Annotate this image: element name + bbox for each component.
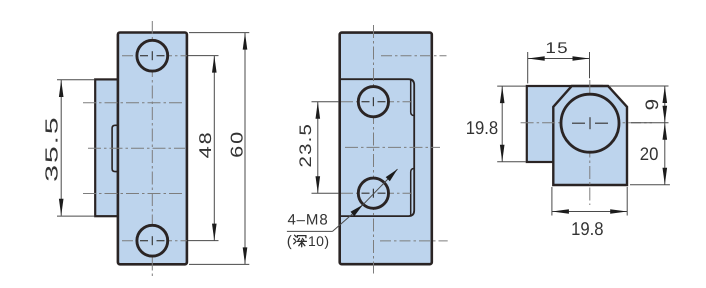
svg-text:60: 60 [228,130,247,158]
svg-text:35.5: 35.5 [42,116,62,182]
svg-text:15: 15 [545,40,568,57]
svg-text:48: 48 [196,130,215,158]
svg-text:19.8: 19.8 [466,117,498,138]
svg-text:9: 9 [642,99,662,111]
svg-text:10): 10) [308,233,329,249]
svg-text:4–M8: 4–M8 [287,212,328,229]
svg-text:20: 20 [640,144,659,164]
svg-text:23.5: 23.5 [296,123,315,168]
svg-text:19.8: 19.8 [571,218,603,239]
svg-text:(: ( [287,233,292,250]
